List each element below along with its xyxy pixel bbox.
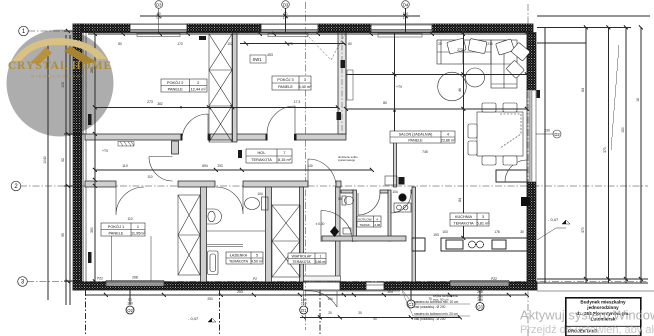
svg-text:1040: 1040 xyxy=(43,156,47,164)
svg-text:Budynek mieszkalny: Budynek mieszkalny xyxy=(580,300,626,305)
svg-text:210: 210 xyxy=(301,301,307,305)
svg-text:1: 1 xyxy=(320,254,322,258)
svg-text:Przejdź do ustawień, aby aktyw: Przejdź do ustawień, aby aktyw xyxy=(520,324,654,336)
svg-text:52: 52 xyxy=(61,158,65,162)
wire axis vertical x=528 xyxy=(527,4,529,336)
door jamb marks y134 wall xyxy=(181,134,297,141)
svg-text:120: 120 xyxy=(403,16,409,20)
svg-text:P2: P2 xyxy=(253,277,257,281)
svg-text:PANELE: PANELE xyxy=(168,86,183,91)
svg-text:11,95m²: 11,95m² xyxy=(131,230,146,235)
svg-text:253: 253 xyxy=(207,297,213,301)
wardrobe X pokoj1 xyxy=(178,195,200,275)
axis circle O2 bottom xyxy=(126,298,134,314)
dimension chain interior horizontal y107 xyxy=(93,106,529,112)
svg-text:Aktywuj system Windows: Aktywuj system Windows xyxy=(520,308,654,323)
svg-text:D2: D2 xyxy=(554,132,560,137)
svg-text:150: 150 xyxy=(477,298,483,302)
axis circle D4 top3 xyxy=(402,1,410,20)
svg-text:103: 103 xyxy=(442,230,448,234)
door corridor arc xyxy=(149,157,173,182)
axis circle 3 xyxy=(18,277,28,287)
svg-text:POKÓJ 2: POKÓJ 2 xyxy=(167,80,183,85)
svg-text:20: 20 xyxy=(328,311,332,315)
window W bottom kitchen xyxy=(450,281,509,291)
svg-text:2: 2 xyxy=(197,80,199,85)
wall top exterior hatched xyxy=(73,24,533,33)
wire bottom interior face xyxy=(85,281,527,283)
svg-text:TERAKOTA: TERAKOTA xyxy=(251,157,272,162)
room table salon xyxy=(390,131,456,143)
svg-text:95: 95 xyxy=(61,233,65,237)
window W top 3 xyxy=(371,25,432,33)
door arc pokoj3 xyxy=(267,106,295,134)
dim line pokoj3 y43.5 xyxy=(240,43,345,45)
window W bottom 1 xyxy=(106,281,164,291)
wall interior horizontal y180 (hall/lower rooms) xyxy=(85,181,415,193)
room table pokoj2 xyxy=(161,79,207,92)
svg-text:694: 694 xyxy=(202,164,208,168)
dim verticals pokoj1 xyxy=(112,236,152,281)
svg-text:TERAKOTA: TERAKOTA xyxy=(453,221,474,225)
svg-text:23,86 m²: 23,86 m² xyxy=(441,139,456,143)
node SW1 label xyxy=(250,55,266,63)
wire salon interior left face xyxy=(345,33,347,135)
svg-text:370: 370 xyxy=(581,227,585,233)
svg-text:ŁAZIENKA: ŁAZIENKA xyxy=(230,254,248,258)
dimension chain hall y170 xyxy=(93,168,374,172)
wall vertical x232 (wardrobe/pokoj3) xyxy=(233,33,238,143)
door arc terrace from salon xyxy=(505,160,527,182)
svg-text:253: 253 xyxy=(217,164,223,168)
svg-text:3: 3 xyxy=(482,215,484,219)
chain dot xyxy=(180,106,182,108)
svg-text:273: 273 xyxy=(147,100,153,104)
tv cabinet hall xyxy=(118,142,134,147)
svg-text:173: 173 xyxy=(287,42,293,46)
svg-text:PANELE: PANELE xyxy=(408,139,423,143)
svg-text:D3: D3 xyxy=(283,2,289,7)
svg-text:5: 5 xyxy=(256,254,258,258)
washbasin lazienka xyxy=(207,209,222,224)
axis circle O3 bottom xyxy=(476,295,484,311)
svg-text:3,66 m²: 3,66 m² xyxy=(315,260,327,264)
svg-text:120: 120 xyxy=(283,16,289,20)
svg-text:nawiew do kotłowni min. 20 cm: nawiew do kotłowni min. 20 cm xyxy=(414,312,458,316)
svg-text:PZ2: PZ2 xyxy=(491,277,497,281)
dimension chains bottom strip xyxy=(85,290,529,336)
svg-text:POKÓJ 3: POKÓJ 3 xyxy=(277,77,293,82)
svg-text:17,3: 17,3 xyxy=(294,100,301,104)
rotated dim texts left xyxy=(43,67,640,237)
wire pokoj2/3 interior top face xyxy=(85,32,533,34)
svg-text:110: 110 xyxy=(147,175,152,179)
svg-text:173: 173 xyxy=(177,42,183,46)
radiator pokoj2 window xyxy=(137,33,180,37)
svg-text:253: 253 xyxy=(237,290,243,294)
wall bottom exterior hatched xyxy=(73,282,537,290)
svg-text:+TV: +TV xyxy=(102,149,109,153)
radiator pokoj3 window xyxy=(268,33,308,37)
svg-text:- 0,47: - 0,47 xyxy=(548,217,559,222)
svg-text:230: 230 xyxy=(544,129,550,133)
wire axis vertical x=305.5 xyxy=(305,2,307,330)
svg-text:7: 7 xyxy=(283,150,285,155)
svg-text:84: 84 xyxy=(581,88,585,92)
wall interior horizontal y134 (rooms/hall) xyxy=(85,134,346,140)
svg-text:30: 30 xyxy=(520,230,524,234)
svg-text:178: 178 xyxy=(494,230,500,234)
node logo circle xyxy=(7,30,114,137)
door arc lazienka xyxy=(216,187,243,214)
svg-text:104: 104 xyxy=(257,192,263,196)
annotation linia text xyxy=(338,155,358,162)
svg-text:268: 268 xyxy=(132,276,138,280)
svg-text:TERAKOTA: TERAKOTA xyxy=(292,260,311,264)
svg-text:390: 390 xyxy=(90,227,94,233)
svg-text:nad posadzką - Ø 200: nad posadzką - Ø 200 xyxy=(414,317,446,321)
svg-text:382: 382 xyxy=(157,102,163,106)
room table hol xyxy=(246,149,292,163)
hall niche fixtures xyxy=(385,176,397,185)
door arc entrance exterior xyxy=(304,291,401,307)
wall vertical x393 hall/kitchen xyxy=(394,142,397,187)
svg-text:SALON (JADALNIA): SALON (JADALNIA) xyxy=(399,133,433,137)
kitchen island top xyxy=(496,170,527,182)
axis circle D3 top2 xyxy=(282,1,290,20)
boiler kotlownia xyxy=(394,194,411,212)
annotation text nawiew bottom right xyxy=(399,286,470,321)
wire terrace bottom line xyxy=(537,290,654,292)
wardrobe X pokoj3 xyxy=(209,34,232,142)
toilet lazienka xyxy=(245,197,269,210)
svg-text:90: 90 xyxy=(373,317,377,321)
tv unit salon xyxy=(347,70,353,100)
svg-text:1: 1 xyxy=(137,224,139,229)
dimension chain interior y34 below top wall xyxy=(88,32,529,36)
room table kotlownia xyxy=(357,216,381,227)
svg-text:WIATROŁAP: WIATROŁAP xyxy=(292,254,312,258)
svg-text:3,08: 3,08 xyxy=(374,223,380,227)
svg-text:150: 150 xyxy=(127,301,133,305)
svg-text:5,81 m²: 5,81 m² xyxy=(477,221,491,225)
washer lazienka xyxy=(207,231,265,247)
interior room face lines xyxy=(85,31,533,282)
svg-text:O2: O2 xyxy=(127,308,133,313)
svg-text:215: 215 xyxy=(487,42,493,46)
door arc pokoj2 xyxy=(182,114,208,140)
svg-text:KUCHNIA: KUCHNIA xyxy=(455,215,473,219)
svg-text:268: 268 xyxy=(477,290,483,294)
svg-text:SW1: SW1 xyxy=(253,57,263,62)
window W top 1 xyxy=(130,24,187,32)
title block xyxy=(566,298,641,336)
svg-text:POKÓJ 1: POKÓJ 1 xyxy=(108,224,124,229)
svg-text:150: 150 xyxy=(621,127,625,133)
svg-text:± 0,00: ± 0,00 xyxy=(316,222,325,226)
svg-text:453: 453 xyxy=(267,53,273,57)
svg-text:8,15 m²: 8,15 m² xyxy=(278,157,292,162)
room table pokoj1 xyxy=(101,223,146,236)
wall vertical x315 wiatrolap/wc xyxy=(336,187,341,282)
dimension lines left side xyxy=(48,29,97,305)
axis circle O1 bottom xyxy=(300,298,308,314)
svg-text:4: 4 xyxy=(447,133,449,137)
svg-text:80: 80 xyxy=(383,101,387,105)
svg-text:8,40 m²: 8,40 m² xyxy=(298,84,312,89)
svg-text:nawiew do kominka min. 20 cm: nawiew do kominka min. 20 cm xyxy=(414,300,459,304)
svg-text:140: 140 xyxy=(307,164,313,168)
dimension line top xyxy=(140,8,420,33)
svg-text:16: 16 xyxy=(636,98,640,102)
lintel label boxes xyxy=(88,36,540,263)
svg-text:55: 55 xyxy=(338,197,342,201)
wall vertical x338 (pokoj3 right / salon) xyxy=(338,33,346,135)
sofa living room xyxy=(437,38,530,88)
wall left exterior hatched xyxy=(73,24,82,290)
fridge kitchen xyxy=(412,238,425,251)
door arc kotlownia xyxy=(391,193,411,213)
wire salon/kitchen interior right face xyxy=(526,31,528,282)
svg-text:NIERUCHOMOŚCI: NIERUCHOMOŚCI xyxy=(31,74,89,79)
svg-text:84: 84 xyxy=(458,198,462,202)
svg-text:- 0,47: - 0,47 xyxy=(188,316,199,321)
svg-text:20: 20 xyxy=(358,311,362,315)
svg-text:273: 273 xyxy=(457,48,463,52)
door arc wiatrolap-hall xyxy=(308,159,336,187)
toilet wc xyxy=(342,196,354,205)
svg-text:103: 103 xyxy=(61,82,65,88)
svg-text:+TV: +TV xyxy=(396,85,403,89)
radiator salon window xyxy=(378,34,422,38)
wall horizontal wc bottom y236 xyxy=(322,236,406,241)
svg-text:102: 102 xyxy=(227,42,233,46)
dimension lines right side / terrace xyxy=(537,16,650,283)
svg-text:104: 104 xyxy=(387,290,393,294)
axis circle D2 right xyxy=(536,129,561,139)
svg-text:12,44 m²: 12,44 m² xyxy=(190,86,206,91)
window W top 2 xyxy=(261,24,318,32)
logo watermark crystal home xyxy=(8,38,112,79)
axis circle 2 xyxy=(11,181,21,191)
room table lazienka xyxy=(226,252,264,264)
svg-text:745: 745 xyxy=(422,150,428,154)
wire axis line C (y=281.5) xyxy=(27,281,648,283)
level marker -0.47 terrace xyxy=(537,217,570,240)
svg-text:HOL: HOL xyxy=(258,150,267,155)
svg-text:104: 104 xyxy=(392,190,398,194)
room table pokoj3 xyxy=(272,76,312,90)
svg-text:80: 80 xyxy=(348,42,352,46)
wall vertical x406 kotlownia/kitchen xyxy=(388,190,391,241)
svg-text:4: 4 xyxy=(376,217,378,221)
svg-text:TERAKOTA: TERAKOTA xyxy=(229,260,249,264)
window V opening mark xyxy=(306,34,345,60)
svg-text:systemowego: systemowego xyxy=(338,158,356,162)
svg-text:3: 3 xyxy=(304,77,306,82)
axis circle C1 bottom xyxy=(407,300,415,308)
wardrobe X hall lower xyxy=(272,205,300,277)
door arc wiatrolap internal with diamond xyxy=(321,211,353,243)
sink wc xyxy=(343,228,351,234)
kitchen counter bottom xyxy=(441,238,527,251)
svg-text:KOTŁOW.: KOTŁOW. xyxy=(358,217,372,221)
svg-text:80: 80 xyxy=(118,42,122,46)
wire axis line A (y=31) xyxy=(28,30,100,32)
window right big terrace door xyxy=(527,90,536,182)
wall stub x171 hall corridor xyxy=(172,141,179,154)
svg-text:PZ2: PZ2 xyxy=(97,277,103,281)
svg-text:4,50 m²: 4,50 m² xyxy=(251,260,264,264)
svg-text:PANELE: PANELE xyxy=(108,230,123,235)
svg-text:TERAK.: TERAK. xyxy=(360,223,371,227)
door entrance opening lines xyxy=(303,282,340,290)
round table + plant salon xyxy=(438,68,485,101)
entrance threshold xyxy=(304,276,341,281)
wall right exterior hatched segments xyxy=(527,33,536,291)
door arc pokoj1 xyxy=(116,187,144,215)
bathtub lazienka xyxy=(208,251,219,275)
svg-text:O1: O1 xyxy=(301,308,307,313)
axis circle 1 xyxy=(19,26,29,36)
door arc wc xyxy=(358,193,380,215)
wall vertical x265 bathroom right xyxy=(266,187,272,282)
svg-text:CRYSTAL HOME: CRYSTAL HOME xyxy=(8,60,112,72)
svg-text:D4: D4 xyxy=(403,2,409,7)
svg-text:O3: O3 xyxy=(477,305,483,310)
svg-text:120: 120 xyxy=(156,16,162,20)
svg-text:370: 370 xyxy=(603,147,607,153)
room table kuchnia xyxy=(450,213,490,226)
svg-text:PANELE: PANELE xyxy=(278,84,293,89)
wall vertical x350 wc/kotlownia xyxy=(353,190,357,241)
dimension chain salon vertical x463 xyxy=(346,29,529,240)
svg-text:110: 110 xyxy=(127,217,132,221)
svg-text:46: 46 xyxy=(458,88,462,92)
wall vertical x300 wiatrolap left xyxy=(300,187,304,282)
room table wiatrolap xyxy=(288,253,327,264)
dining table with chairs xyxy=(468,103,523,165)
small dimension texts scattered xyxy=(97,42,524,321)
level marker +0.47 bottom left xyxy=(188,316,216,322)
svg-text:110: 110 xyxy=(122,164,128,168)
axis circle D3 top1 xyxy=(155,1,163,20)
svg-text:D3: D3 xyxy=(156,2,162,7)
svg-text:104: 104 xyxy=(327,297,333,301)
wall vertical x200 pokoj1 right xyxy=(201,187,207,282)
svg-text:193: 193 xyxy=(433,233,439,237)
wire axis line B (y=186) xyxy=(20,185,648,187)
svg-text:25: 25 xyxy=(438,42,442,46)
svg-text:nad posadzką - Ø 200: nad posadzką - Ø 200 xyxy=(414,305,446,309)
fireplace salon xyxy=(521,197,530,206)
